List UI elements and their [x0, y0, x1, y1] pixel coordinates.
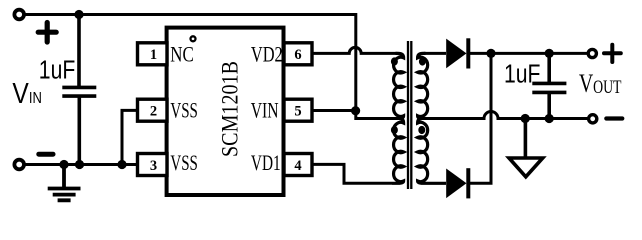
svg-text:V: V — [12, 78, 29, 110]
output terminal minus — [589, 115, 597, 123]
phase dot primary bottom — [391, 126, 398, 134]
output terminal plus — [588, 49, 596, 57]
node gnd2 junction — [521, 114, 530, 123]
wire top rail — [20, 13, 355, 16]
diode D1 — [446, 38, 468, 68]
svg-text:VSS: VSS — [170, 97, 198, 122]
ground GND2 — [509, 119, 543, 177]
wire pin4 to transformer — [311, 164, 392, 183]
pin 1 indicator circle — [191, 36, 196, 41]
plus sign input — [38, 23, 56, 43]
input terminal minus — [14, 160, 24, 170]
wire pin2 to bottom rail — [122, 110, 139, 164]
node D1 output junction — [486, 49, 495, 58]
svg-text:1uF: 1uF — [504, 59, 541, 89]
node center tap junction — [351, 106, 360, 115]
svg-text:6: 6 — [294, 47, 301, 63]
transformer T1 core — [408, 41, 411, 189]
node pin2 junction — [117, 160, 126, 169]
node C2 top junction — [545, 49, 554, 58]
plus sign output — [604, 45, 621, 62]
svg-text:VIN: VIN — [251, 97, 279, 122]
svg-text:4: 4 — [294, 158, 301, 174]
node gnd junction — [59, 160, 68, 169]
pin 2 box — [138, 99, 168, 121]
wire pin6 to transformer with hop — [311, 47, 403, 58]
wire diode joiner vertical — [470, 53, 491, 183]
phase dot secondary top — [419, 57, 426, 65]
wire VIN vertical drop — [356, 13, 399, 119]
capacitor C2 — [532, 53, 566, 118]
node cap bottom junction — [75, 160, 84, 169]
transformer secondary bottom winding — [418, 119, 446, 184]
transformer primary top winding — [394, 53, 404, 118]
node C2 bottom junction — [545, 114, 554, 123]
svg-text:IN: IN — [29, 90, 42, 107]
svg-text:5: 5 — [294, 103, 301, 119]
wire D1 to plus rail — [468, 52, 592, 55]
svg-text:NC: NC — [170, 42, 194, 67]
pin 1 box — [138, 43, 168, 65]
ground GND1 — [48, 165, 81, 201]
phase dot secondary bottom — [418, 126, 425, 134]
wire bottom rail — [20, 163, 139, 166]
transformer primary bottom winding — [392, 119, 404, 184]
capacitor C1 — [62, 15, 96, 165]
pin 6 box — [284, 43, 312, 65]
transformer secondary top winding — [418, 53, 428, 118]
node top cap junction — [74, 10, 83, 19]
wire secondary center tap minus rail with hop — [422, 112, 592, 119]
svg-text:SCM1201B: SCM1201B — [217, 61, 242, 157]
svg-text:VD1: VD1 — [251, 150, 281, 175]
pin 3 box — [138, 154, 168, 176]
op-amp U1 body SCM1201B — [167, 28, 284, 195]
wire pin5 to center tap — [311, 109, 355, 112]
minus sign input — [39, 152, 53, 157]
pin 4 box — [284, 154, 312, 176]
minus sign output — [606, 116, 622, 120]
svg-text:1: 1 — [150, 47, 157, 63]
wire secondary top to D1 — [424, 52, 446, 55]
input terminal plus — [14, 10, 24, 20]
phase dot primary top — [391, 57, 398, 65]
svg-text:VSS: VSS — [170, 150, 198, 175]
svg-text:V: V — [579, 68, 594, 98]
svg-text:VD2: VD2 — [251, 42, 283, 67]
svg-text:3: 3 — [150, 158, 157, 174]
svg-text:2: 2 — [150, 103, 157, 119]
svg-text:1uF: 1uF — [39, 54, 76, 84]
svg-text:OUT: OUT — [593, 77, 622, 98]
pin 5 box — [284, 99, 312, 121]
diode D2 — [446, 168, 468, 198]
